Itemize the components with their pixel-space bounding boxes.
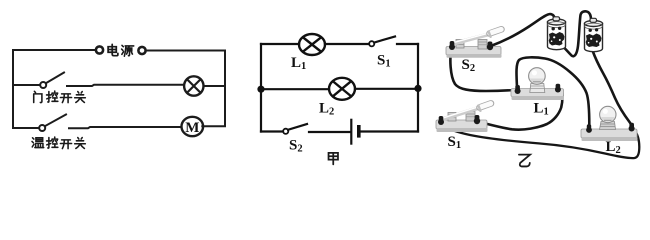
switch S2 pivot (283, 129, 288, 134)
switch S2 (knife switch, open) (446, 29, 502, 58)
glyph 开 (60, 94, 71, 103)
junction node right (414, 85, 421, 92)
battery long plate (+) (350, 120, 352, 144)
terminal right (556, 84, 561, 92)
wire S1-left long to L2-right (441, 124, 640, 158)
terminal right (629, 123, 634, 131)
power supply terminal left (96, 46, 103, 53)
label 门控开关 (door-controlled switch) (34, 91, 86, 103)
switch S1 pivot (369, 41, 374, 46)
battery cell 1 (548, 17, 566, 50)
wire right vertical (224, 51, 226, 127)
lamp L1 (bulb on base) (511, 68, 564, 100)
label 温控开关 (temperature-controlled switch) (32, 137, 85, 149)
wire branch1 left segment (13, 84, 40, 86)
wire top middle segment (325, 43, 369, 45)
terminal right (475, 115, 480, 123)
wire bottom right segment (361, 130, 418, 132)
junction node left (257, 86, 264, 93)
terminal left (439, 116, 444, 124)
lamp L2 (circle-X) (329, 78, 355, 100)
wire battery1 bottom to battery2 top (563, 11, 592, 56)
glyph 开 (60, 140, 71, 149)
lamp L1 (circle-X) (299, 34, 325, 55)
terminal left (515, 85, 520, 93)
wire left vertical (260, 44, 262, 132)
wire bottom middle segment (309, 131, 350, 133)
positive button (590, 18, 597, 22)
glyph 关 (75, 138, 86, 149)
switch pivot door switch (40, 82, 46, 88)
switch lever temperature switch (45, 115, 66, 127)
wire branch1 middle segment (67, 85, 184, 86)
lamp EL1 (circle-X) (184, 76, 203, 95)
lamp L2 (bulb on base) (581, 106, 638, 141)
battery short plate (-) (357, 125, 361, 138)
power supply terminal right (138, 47, 145, 54)
handle (480, 103, 492, 107)
wire branch2 middle segment (69, 127, 181, 128)
glyph 控 (47, 137, 58, 148)
wire branch2 right segment (202, 125, 225, 127)
wire middle right segment (355, 88, 418, 90)
blade (443, 109, 477, 120)
socket (600, 122, 616, 130)
label blotches (549, 27, 565, 46)
switch S1 (knife switch, open) (436, 103, 491, 132)
label 乙 (yi) (519, 155, 530, 167)
wire S2-left to L1-left (450, 49, 513, 91)
wire S2-right to battery1 top (492, 14, 555, 46)
wire bottom left segment (261, 130, 283, 132)
wire L1-left over bulb to L2-left (516, 57, 589, 125)
glyph 温 (32, 138, 44, 148)
wire branch2 left segment (13, 127, 39, 129)
battery cell 2 (585, 18, 603, 51)
svg-text:M: M (185, 120, 199, 136)
terminal right (488, 42, 493, 50)
wire middle left segment (261, 88, 329, 90)
switch pivot temperature switch (39, 125, 45, 131)
glass bulb (529, 68, 546, 85)
wire right vertical (417, 44, 419, 132)
motor M (182, 117, 204, 136)
glyph 关 (75, 92, 86, 103)
wire branch1 right segment (204, 85, 226, 87)
glass bulb (600, 106, 616, 122)
glyph 控 (47, 91, 58, 102)
wire power terminal to top right corner (146, 50, 226, 52)
wire battery2 bottom to L2-right (593, 51, 632, 128)
switch S1 lever (374, 37, 395, 43)
label blotches (586, 28, 602, 47)
socket (530, 84, 545, 93)
terminal left (587, 124, 591, 132)
glyph 门 (34, 91, 42, 102)
positive button (553, 17, 560, 21)
glyph 电 (108, 44, 118, 55)
wire top right segment (397, 43, 418, 45)
wire top left to power terminal (13, 49, 96, 51)
label 电源 (power supply) (108, 44, 134, 56)
wire left vertical (12, 50, 14, 128)
wire top left segment (261, 43, 299, 45)
handle (490, 29, 502, 33)
switch lever door switch (46, 73, 64, 84)
terminal left (450, 41, 455, 49)
blade (452, 35, 488, 45)
wire S1-right to L1-right (479, 91, 563, 130)
switch S2 lever (288, 124, 307, 130)
glyph 源 (122, 45, 134, 56)
label 甲 (jia) (329, 153, 338, 164)
